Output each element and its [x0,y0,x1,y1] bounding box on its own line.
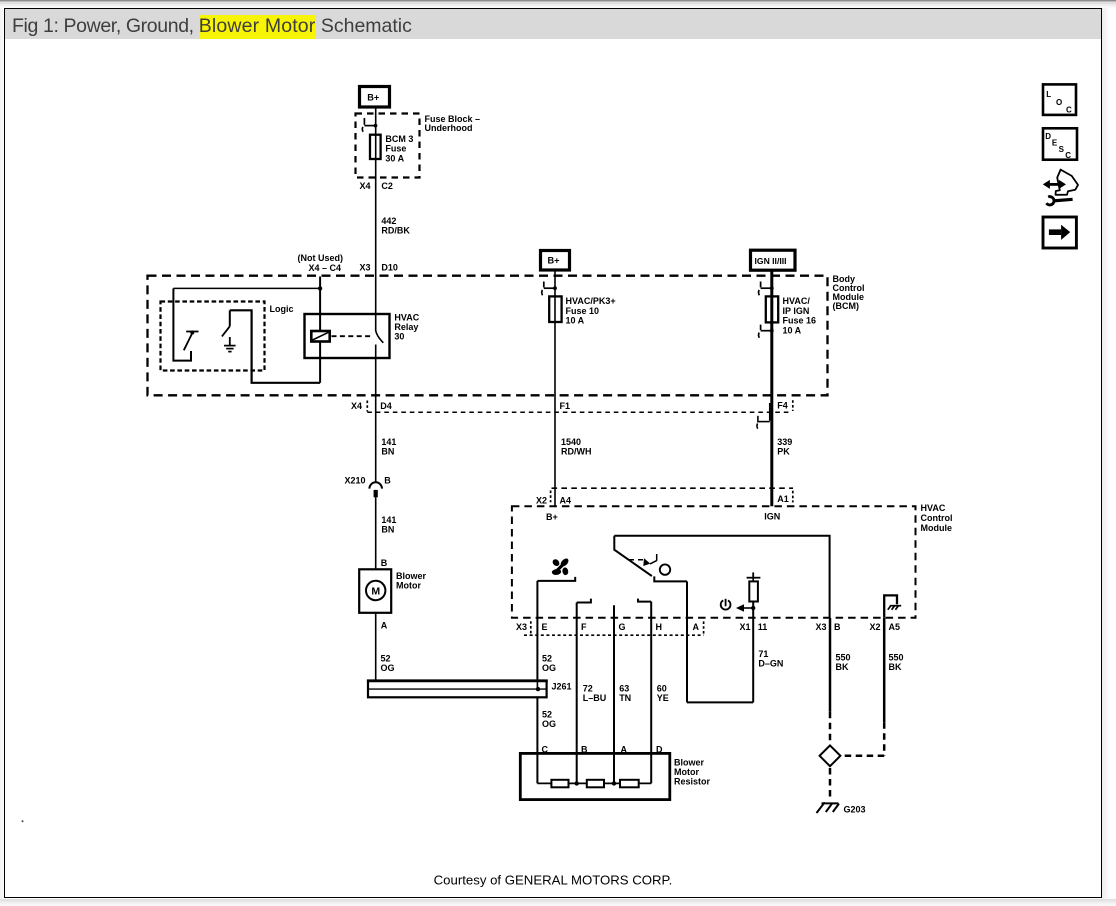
svg-text:X3: X3 [815,622,826,632]
svg-text:B: B [381,558,388,568]
svg-text:A1: A1 [777,494,789,504]
svg-text:Underhood: Underhood [425,123,473,133]
svg-text:F: F [581,622,587,632]
svg-text:H: H [656,622,663,632]
svg-text:Fuse: Fuse [385,144,406,154]
svg-text:B: B [581,745,588,755]
svg-text:IGN: IGN [764,512,780,522]
svg-text:L–BU: L–BU [583,693,607,703]
svg-text:BN: BN [381,525,394,535]
svg-text:Relay: Relay [394,322,418,332]
svg-text:B+: B+ [548,256,560,266]
svg-text:Motor: Motor [674,767,699,777]
svg-text:52: 52 [381,653,391,663]
svg-text:Resistor: Resistor [674,776,711,786]
svg-text:63: 63 [619,684,629,694]
svg-text:30: 30 [394,332,404,342]
svg-text:60: 60 [657,684,667,694]
svg-text:Logic: Logic [270,304,294,314]
svg-text:BK: BK [836,662,849,672]
svg-text:HVAC/: HVAC/ [783,296,811,306]
svg-text:TN: TN [619,693,631,703]
svg-text:X4 – C4: X4 – C4 [308,263,341,273]
svg-text:BN: BN [381,447,394,457]
svg-text:X3: X3 [359,263,370,273]
svg-text:(BCM): (BCM) [833,301,860,311]
svg-text:J261: J261 [552,682,572,692]
svg-text:141: 141 [381,437,396,447]
svg-text:OG: OG [542,719,556,729]
svg-text:HVAC: HVAC [921,503,946,513]
svg-text:G: G [619,622,626,632]
svg-text:D4: D4 [380,401,392,411]
svg-text:X2: X2 [536,495,547,505]
svg-text:YE: YE [657,693,669,703]
svg-text:52: 52 [542,653,552,663]
svg-text:30 A: 30 A [385,153,404,163]
svg-text:E: E [542,622,548,632]
svg-text:G203: G203 [844,805,866,815]
svg-text:X3: X3 [516,622,527,632]
svg-text:11: 11 [758,622,768,632]
svg-text:IGN II/III: IGN II/III [755,256,787,266]
svg-text:71: 71 [758,649,768,659]
svg-text:BK: BK [889,662,902,672]
svg-text:52: 52 [542,709,552,719]
svg-text:BCM 3: BCM 3 [385,134,413,144]
svg-text:1540: 1540 [561,437,581,447]
svg-text:M: M [371,585,380,597]
svg-text:C: C [1066,106,1072,115]
svg-text:X1: X1 [739,622,750,632]
svg-text:Module: Module [921,523,953,533]
svg-text:(Not Used): (Not Used) [298,253,344,263]
svg-text:B+: B+ [546,512,558,522]
svg-text:Control: Control [921,513,953,523]
svg-text:B+: B+ [367,93,379,103]
svg-text:550: 550 [889,652,904,662]
svg-text:F1: F1 [560,401,571,411]
svg-text:Blower: Blower [396,571,427,581]
svg-text:Blower: Blower [674,757,705,767]
svg-text:A: A [693,622,700,632]
svg-text:S: S [1059,145,1065,154]
svg-text:550: 550 [836,652,851,662]
svg-text:Courtesy of GENERAL MOTORS COR: Courtesy of GENERAL MOTORS CORP. [434,873,673,888]
svg-text:C: C [1065,151,1071,160]
svg-text:Motor: Motor [396,580,421,590]
svg-text:Fuse 10: Fuse 10 [566,306,600,316]
svg-text:IP IGN: IP IGN [783,306,810,316]
svg-text:X210: X210 [344,475,365,485]
svg-text:OG: OG [381,663,395,673]
svg-text:RD/BK: RD/BK [381,226,410,236]
svg-text:442: 442 [381,216,396,226]
svg-text:HVAC/PK3+: HVAC/PK3+ [566,296,616,306]
svg-text:339: 339 [777,437,792,447]
svg-text:10 A: 10 A [566,316,585,326]
svg-text:HVAC: HVAC [394,312,419,322]
svg-text:A4: A4 [560,495,572,505]
svg-text:O: O [1056,98,1062,107]
svg-text:C: C [542,745,549,755]
svg-text:D10: D10 [381,263,398,273]
svg-text:X2: X2 [869,622,880,632]
svg-text:D–GN: D–GN [758,658,783,668]
svg-text:OG: OG [542,663,556,673]
svg-text:X4: X4 [360,181,371,191]
svg-text:A5: A5 [889,622,901,632]
svg-text:141: 141 [381,515,396,525]
svg-text:C2: C2 [381,181,393,191]
svg-text:RD/WH: RD/WH [561,447,592,457]
svg-text:PK: PK [777,447,790,457]
svg-text:D: D [656,745,663,755]
svg-text:D: D [1045,132,1051,141]
svg-text:A: A [381,621,388,631]
svg-text:B: B [384,475,391,485]
svg-text:Fuse 16: Fuse 16 [783,316,817,326]
svg-text:F4: F4 [777,400,788,410]
svg-text:72: 72 [583,684,593,694]
svg-text:B: B [834,622,841,632]
svg-text:L: L [1046,90,1051,99]
svg-text:10 A: 10 A [783,325,802,335]
svg-text:X4: X4 [351,401,362,411]
svg-text:E: E [1052,139,1058,148]
svg-text:A: A [621,745,628,755]
